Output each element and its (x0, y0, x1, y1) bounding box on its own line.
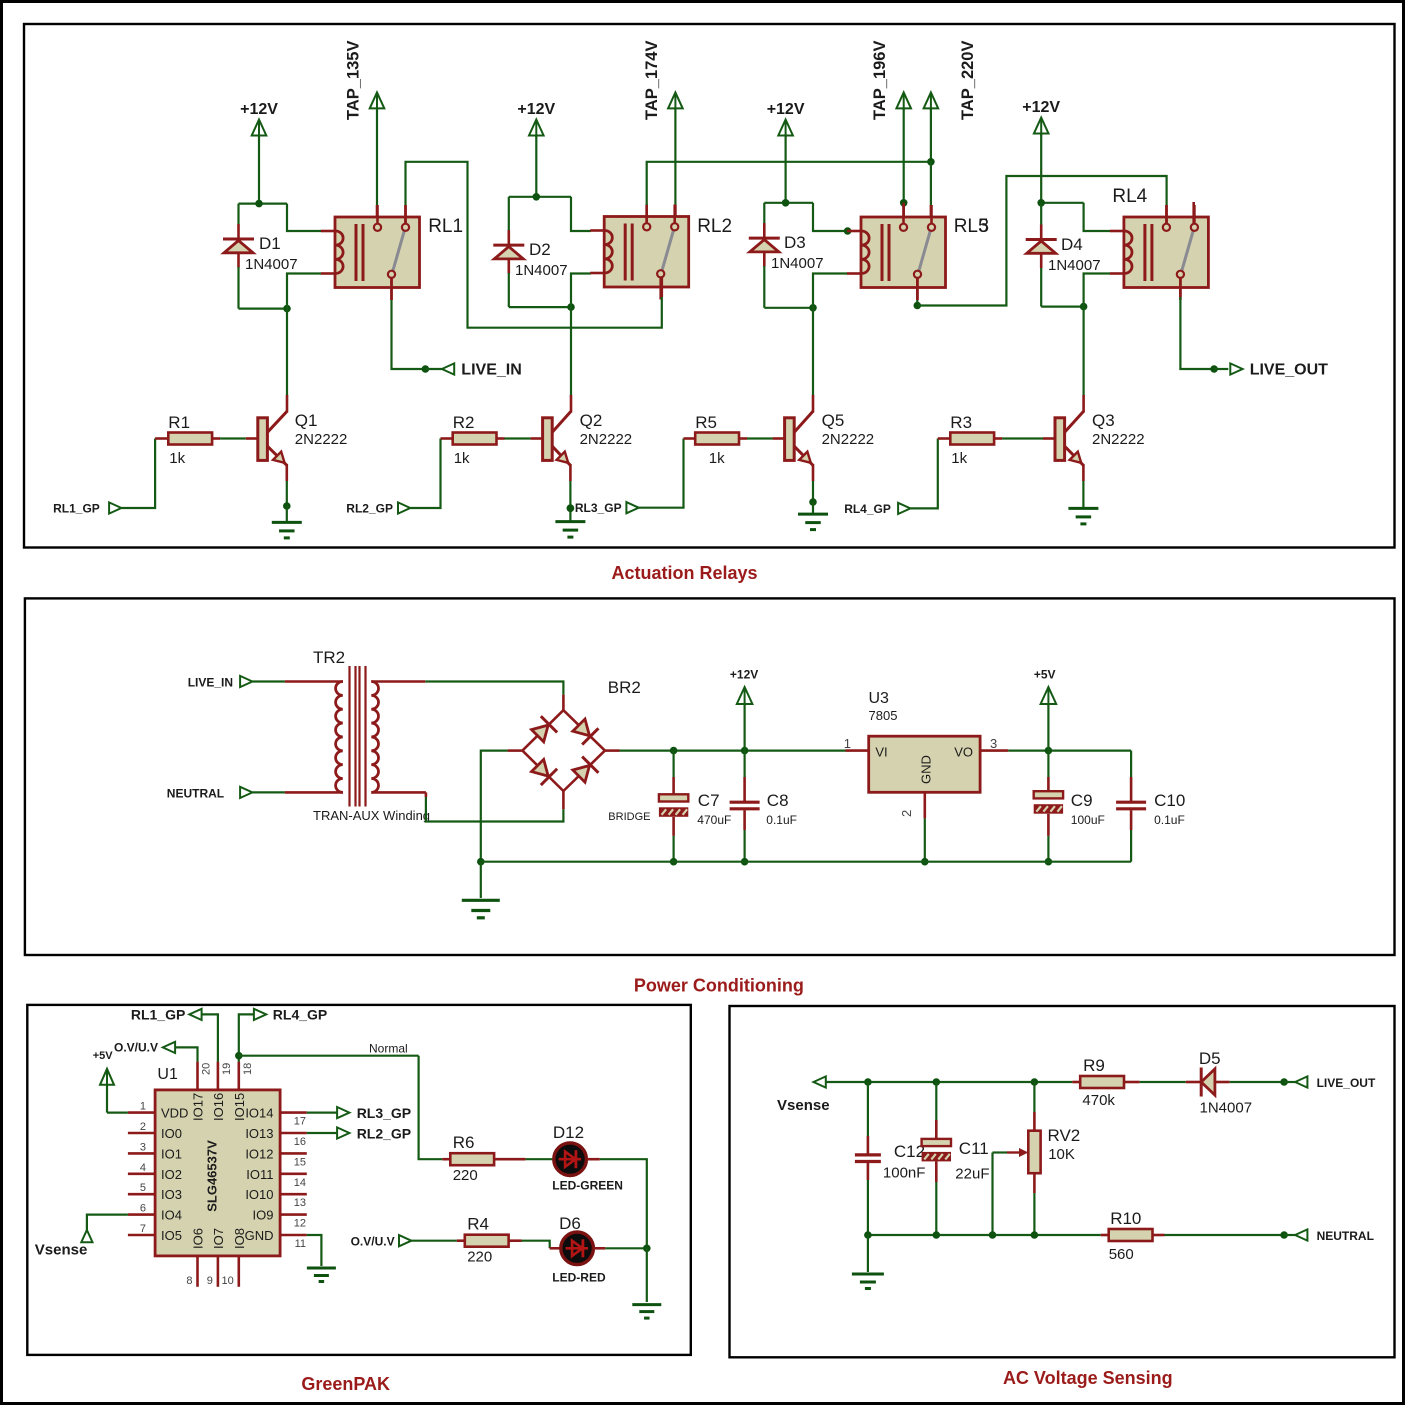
section box: AC Voltage Sensing (730, 1006, 1395, 1357)
svg-text:11: 11 (295, 1238, 306, 1250)
wire TR2 secondary top to BR2 (371, 680, 425, 683)
svg-text:IO6: IO6 (191, 1228, 206, 1249)
potentiometer RV2 10K (1028, 1131, 1040, 1174)
svg-text:IO7: IO7 (211, 1228, 226, 1249)
wire rail to D1 (237, 204, 239, 224)
svg-text:1N4007: 1N4007 (515, 262, 568, 279)
wire cathode rail to ground (646, 1248, 648, 1302)
svg-text:IO13: IO13 (245, 1126, 273, 1141)
diode D2 (507, 230, 510, 245)
wire RL4 pole to LIVE_OUT (1179, 278, 1182, 297)
svg-text:O.V/U.V: O.V/U.V (351, 1235, 395, 1249)
wire D3 bottom rail (764, 307, 813, 309)
junction Q5 emitter (809, 498, 817, 506)
wire BR2 plus to +12V rail (605, 749, 620, 752)
wire +12V rail cell 1 (239, 203, 288, 205)
svg-text:220: 220 (453, 1167, 478, 1184)
wire U1 IO4 to Vsense (87, 1215, 128, 1230)
junction RL3 coil top (844, 227, 852, 235)
wire RL4 NO stub (1192, 202, 1195, 224)
wire rail to RL3 coil top (813, 203, 848, 231)
svg-text:IO17: IO17 (191, 1093, 206, 1121)
svg-text:D4: D4 (1061, 235, 1083, 254)
wire TAP_196V stub (902, 203, 905, 224)
svg-text:IO8: IO8 (232, 1228, 247, 1249)
diode D3 (763, 223, 766, 238)
svg-text:1k: 1k (454, 450, 470, 467)
junction RV2 bottom (1031, 1231, 1039, 1239)
wire pin 17 to RL3_GP (307, 1111, 337, 1113)
wire TAP_220V to RL3 pin (930, 162, 932, 205)
svg-text:IO4: IO4 (161, 1208, 182, 1223)
ground (Q3) (1068, 507, 1098, 510)
svg-text:LIVE_OUT: LIVE_OUT (1250, 362, 1328, 379)
wire RL3_GP to R5 (639, 439, 684, 508)
svg-text:0.1uF: 0.1uF (766, 813, 797, 827)
svg-text:R6: R6 (453, 1133, 475, 1152)
svg-text:D1: D1 (259, 234, 281, 253)
svg-text:C8: C8 (767, 791, 789, 810)
junction D4 bottom (1080, 303, 1088, 311)
svg-text:RL2_GP: RL2_GP (346, 502, 393, 516)
wire +12V rail to U3 VI (846, 749, 869, 752)
svg-text:TAP_220V: TAP_220V (959, 41, 977, 121)
svg-text:2N2222: 2N2222 (580, 431, 633, 448)
junction TAP_196V (900, 199, 908, 207)
junction +12V cell 3 (782, 199, 790, 207)
terminal RL3_GP (U1) (337, 1107, 349, 1118)
junction ground rail (477, 858, 485, 866)
wire D1 bottom rail (239, 308, 288, 310)
wire C9 top (1047, 751, 1049, 777)
wire C7 top (672, 751, 674, 777)
ground (sense) (852, 1273, 884, 1276)
wire RL2 NC to TAP_220V node (647, 162, 931, 205)
diode D1 (237, 224, 240, 239)
wire LIVE_IN to TR2 primary (252, 680, 285, 682)
svg-text:3: 3 (979, 216, 990, 237)
wire emitter dot to ground (569, 508, 571, 521)
wire D4 bottom rail (1041, 306, 1083, 308)
junction LIVE_OUT (1210, 365, 1218, 373)
wire R9 to D5 (1124, 1081, 1140, 1084)
svg-text:20: 20 (201, 1063, 213, 1075)
pin 3 (IO1) (128, 1152, 155, 1155)
wire +5V to U1 VDD (106, 1084, 108, 1113)
junction C12 top (864, 1078, 872, 1086)
svg-text:1N4007: 1N4007 (771, 255, 824, 272)
svg-text:R10: R10 (1110, 1209, 1141, 1228)
svg-text:19: 19 (221, 1063, 233, 1075)
ground (Q2) (555, 520, 585, 523)
relay RL1 (335, 217, 420, 288)
junction +12V cell 1 (255, 200, 263, 208)
resistor R10 560 (1109, 1229, 1153, 1241)
svg-text:R5: R5 (695, 413, 717, 432)
wire C8 bottom (743, 810, 746, 830)
pin 5 (IO3) (128, 1193, 155, 1196)
junction C11 bottom (933, 1231, 941, 1239)
svg-text:IO5: IO5 (161, 1228, 182, 1243)
pin 4 (IO2) (128, 1173, 155, 1176)
section box: GreenPAK (27, 1005, 691, 1355)
power +5V (rail) (1041, 687, 1057, 704)
svg-text:+12V: +12V (1022, 99, 1060, 116)
svg-text:Q1: Q1 (295, 411, 318, 430)
wire to NEUTRAL flag (sense) (1284, 1234, 1295, 1236)
pin 11 (GND) (280, 1234, 307, 1237)
terminal LIVE_OUT (1230, 363, 1242, 374)
svg-text:1: 1 (140, 1101, 146, 1113)
svg-text:Q2: Q2 (580, 411, 603, 430)
svg-text:RL1_GP: RL1_GP (53, 502, 100, 516)
wire C9 bottom (1047, 814, 1050, 836)
wire +12V to D4 rail (1040, 133, 1042, 203)
resistor R1 (168, 433, 212, 445)
wire C12 bottom lead (867, 1163, 870, 1180)
svg-text:22uF: 22uF (955, 1166, 989, 1183)
svg-text:13: 13 (294, 1197, 306, 1209)
svg-text:IO10: IO10 (245, 1187, 273, 1202)
wire rail to D4 (1040, 203, 1042, 225)
svg-text:VI: VI (875, 745, 887, 760)
wire rail to R9 (1072, 1081, 1080, 1084)
terminal NEUTRAL (sense) (1295, 1229, 1307, 1240)
wire U3 GND pin (923, 792, 926, 818)
svg-text:IO12: IO12 (245, 1146, 273, 1161)
ground rail (section 2) (481, 861, 1131, 863)
wire C10 bottom (1130, 810, 1133, 830)
junction NEUTRAL (sense) (1280, 1231, 1288, 1239)
svg-text:15: 15 (294, 1156, 306, 1168)
svg-text:4: 4 (140, 1162, 146, 1174)
wire RL2 cell to Q2 collector (570, 307, 572, 396)
ground (LEDs) (632, 1303, 661, 1306)
svg-text:1: 1 (844, 736, 851, 751)
capacitor C9 100uF (1034, 791, 1063, 798)
svg-text:Power Conditioning: Power Conditioning (634, 976, 804, 996)
svg-text:0.1uF: 0.1uF (1154, 813, 1185, 827)
svg-text:3: 3 (990, 736, 997, 751)
pin 13 (IO10) (280, 1193, 307, 1196)
relay RL5 (RL3) (861, 217, 946, 288)
svg-text:TR2: TR2 (313, 648, 345, 667)
wire D12 to cathode rail (587, 1158, 600, 1161)
wire rail to RL1 coil top (287, 204, 322, 231)
pin 18 (IO15) (238, 1062, 241, 1090)
svg-text:RL4: RL4 (1112, 186, 1147, 207)
terminal Vsense (U1) (81, 1230, 92, 1242)
svg-text:+5V: +5V (1034, 668, 1056, 682)
wire U3 VO to +5V rail (980, 749, 1008, 752)
wire D4 anode down (1040, 268, 1042, 307)
pin 20 (IO17) (196, 1062, 199, 1090)
ground (U1) (307, 1267, 336, 1270)
wire RL1 cell to Q1 collector (286, 309, 288, 396)
junction Normal net (235, 1052, 243, 1060)
svg-text:D12: D12 (553, 1123, 584, 1142)
wire +12V to D1 rail (258, 135, 260, 204)
terminal TAP_220V (924, 92, 939, 108)
svg-text:2N2222: 2N2222 (295, 431, 348, 448)
wire C10 top (1130, 751, 1132, 777)
pin 6 (IO4) (128, 1213, 155, 1216)
terminal LIVE_IN (442, 363, 454, 374)
svg-text:C7: C7 (698, 791, 720, 810)
wire RL1 coil bottom (287, 274, 322, 309)
wire +12V rail cell 2 (509, 196, 571, 198)
wire rail to RL4 coil top (1084, 203, 1110, 231)
svg-text:2N2222: 2N2222 (822, 431, 875, 448)
terminal LIVE_OUT (sense) (1295, 1076, 1307, 1087)
junction C11 top (933, 1078, 941, 1086)
relay RL4 (1124, 217, 1209, 288)
resistor R5 (695, 433, 739, 445)
wire R1 to Q1 base (212, 437, 220, 440)
power +12V (cell 1) (252, 120, 267, 136)
svg-text:1k: 1k (709, 450, 725, 467)
section box: Actuation Relays (24, 24, 1395, 548)
svg-text:RL1_GP: RL1_GP (131, 1007, 185, 1023)
junction C7 bottom (670, 858, 678, 866)
svg-text:C9: C9 (1071, 791, 1093, 810)
capacitor C7 470uF (659, 794, 688, 801)
svg-text:17: 17 (294, 1116, 306, 1128)
svg-text:100nF: 100nF (883, 1165, 926, 1182)
power +12V (cell 3) (778, 120, 793, 136)
svg-text:LED-RED: LED-RED (552, 1271, 606, 1285)
svg-text:7805: 7805 (869, 708, 898, 723)
wire emitter dot to ground (812, 502, 814, 514)
capacitor C11 22uF (922, 1139, 951, 1146)
svg-text:C10: C10 (1154, 791, 1185, 810)
svg-text:LIVE_OUT: LIVE_OUT (1317, 1076, 1376, 1090)
svg-text:9: 9 (207, 1275, 213, 1287)
pin 14 (IO11) (280, 1173, 307, 1176)
wire TAP_135V to RL1 pin (376, 108, 378, 205)
wire to ground symbol (480, 862, 482, 898)
svg-text:1N4007: 1N4007 (245, 256, 298, 273)
relay RL2 (604, 217, 689, 288)
svg-text:RL3_GP: RL3_GP (575, 501, 622, 515)
wire RL1_GP to R1 (121, 439, 155, 509)
junction U3 GND (921, 858, 929, 866)
pin 10 (IO8) (238, 1256, 241, 1287)
svg-text:LIVE_IN: LIVE_IN (188, 676, 233, 690)
wire +5V arrow stem (1047, 703, 1049, 751)
wire RL1 pole to LIVE_IN (390, 278, 393, 300)
wire TAP_174V to RL2 pin (674, 108, 676, 205)
svg-text:8: 8 (186, 1275, 192, 1287)
diode D4 (1040, 225, 1043, 240)
svg-text:16: 16 (294, 1136, 306, 1148)
led D6 LED-RED (561, 1232, 594, 1265)
pin 1 (VDD) (128, 1111, 155, 1114)
svg-text:TAP_196V: TAP_196V (871, 41, 889, 121)
svg-text:RL3_GP: RL3_GP (357, 1105, 411, 1121)
svg-text:18: 18 (242, 1063, 254, 1075)
wire neutral rail (868, 1234, 1101, 1236)
svg-text:10K: 10K (1048, 1146, 1075, 1163)
svg-text:2N2222: 2N2222 (1092, 431, 1145, 448)
svg-text:BR2: BR2 (608, 678, 641, 697)
wire R4 to D6 (509, 1239, 522, 1242)
wire to ground (sense) (867, 1235, 869, 1272)
svg-text:+5V: +5V (93, 1050, 114, 1062)
svg-text:14: 14 (294, 1177, 306, 1189)
svg-text:D6: D6 (559, 1214, 581, 1233)
transistor Q5 2N2222 (785, 418, 795, 461)
svg-text:LIVE_IN: LIVE_IN (461, 362, 521, 379)
wire D1 anode down (237, 267, 239, 309)
pin 17 (IO14) (280, 1111, 307, 1114)
svg-text:R3: R3 (950, 413, 972, 432)
ground (Q1) (272, 521, 302, 524)
junction TAP_220V / RL2 NC chain (927, 158, 935, 166)
svg-text:Normal: Normal (369, 1042, 408, 1056)
svg-text:R4: R4 (467, 1215, 489, 1234)
wire RL4 coil bottom (1084, 274, 1110, 307)
ground (Q5) (798, 513, 828, 516)
svg-text:IO16: IO16 (211, 1093, 226, 1121)
power +12V (cell 4) (1034, 118, 1049, 134)
wire +12V arrow stem (743, 703, 745, 751)
junction LIVE_IN (422, 365, 430, 373)
capacitor C10 0.1uF (1116, 801, 1146, 804)
svg-text:BRIDGE: BRIDGE (608, 811, 650, 823)
svg-text:Vsense: Vsense (777, 1097, 830, 1114)
svg-text:100uF: 100uF (1071, 813, 1105, 827)
transistor Q3 2N2222 (1055, 418, 1065, 461)
wire +12V rail cell 3 (764, 202, 813, 204)
svg-text:Actuation Relays: Actuation Relays (611, 563, 757, 583)
svg-text:RL2_GP: RL2_GP (357, 1125, 411, 1141)
svg-text:SLG46537V: SLG46537V (205, 1140, 220, 1212)
svg-text:1k: 1k (951, 450, 967, 467)
wire to LIVE_OUT flag (1214, 368, 1228, 370)
svg-text:O.V/U.V: O.V/U.V (114, 1041, 158, 1055)
wire Normal net (239, 1055, 419, 1057)
svg-text:3: 3 (140, 1141, 146, 1153)
wire rail to RL2 coil top (571, 197, 591, 231)
svg-text:D2: D2 (529, 240, 551, 259)
svg-text:GreenPAK: GreenPAK (301, 1374, 390, 1394)
junction C12 bottom (864, 1231, 872, 1239)
transistor Q2 2N2222 (543, 418, 553, 461)
svg-text:R9: R9 (1083, 1056, 1105, 1075)
wire C8 top (743, 751, 745, 777)
junction D1 bottom (283, 305, 291, 313)
svg-text:TAP_135V: TAP_135V (345, 41, 363, 121)
svg-text:IO15: IO15 (232, 1093, 247, 1121)
wire R2 to Q2 base (497, 437, 505, 440)
junction D2 bottom (567, 303, 575, 311)
junction RL3_GP at Q2 emitter (567, 504, 575, 512)
transistor Q1 2N2222 (258, 418, 268, 461)
resistor R4 220 (465, 1235, 509, 1247)
svg-text:12: 12 (294, 1218, 306, 1230)
wire RV2 bottom lead (1033, 1173, 1036, 1193)
wire D6 to cathode rail (594, 1247, 605, 1250)
svg-text:GND: GND (245, 1228, 274, 1243)
wire RL4_GP to R3 (910, 439, 937, 509)
terminal RL4_GP (U1) (254, 1009, 266, 1020)
wire R10 to NEUTRAL (1153, 1234, 1165, 1237)
wire rail to R10 (1101, 1234, 1109, 1237)
junction D3 bottom (809, 304, 817, 312)
pin 2 (IO0) (128, 1132, 155, 1135)
svg-text:+12V: +12V (730, 668, 758, 682)
terminal RL2_GP (U1) (337, 1127, 349, 1138)
wire TAP_196V to RL3 pin (903, 108, 905, 203)
svg-text:D5: D5 (1199, 1049, 1221, 1068)
wire +12V to D2 rail (535, 135, 537, 197)
svg-text:RL2: RL2 (697, 216, 732, 237)
wire RL3 coil bottom (813, 274, 848, 308)
svg-text:+12V: +12V (517, 101, 555, 118)
svg-text:7: 7 (140, 1223, 146, 1235)
svg-text:Q3: Q3 (1092, 411, 1115, 430)
resistor R2 (453, 433, 497, 445)
wire D2 anode down (508, 273, 510, 307)
wire C12 top lead (867, 1082, 869, 1136)
bridge rectifier BR2 (522, 710, 563, 750)
wire Q2 emitter to ground (569, 481, 571, 508)
wire RL1 NO to RL2 pole (406, 162, 662, 328)
svg-text:U1: U1 (157, 1066, 178, 1083)
wire R6 to D12 (494, 1158, 525, 1161)
svg-text:IO11: IO11 (246, 1167, 273, 1182)
regulator U3 7805 (869, 736, 980, 792)
wire +12V rail cell 4 (1041, 202, 1083, 204)
pin 19 (IO16) (217, 1062, 220, 1090)
junction +12V rail (741, 747, 749, 755)
svg-text:IO1: IO1 (161, 1146, 182, 1161)
wire R5 to Q5 base (739, 437, 747, 440)
wire pin 16 to RL2_GP (307, 1132, 337, 1134)
resistor R6 220 (450, 1153, 494, 1165)
wire TAP_220V down (930, 108, 932, 162)
wire O.V/U.V to pin 20 (175, 1047, 197, 1061)
wire RL3 pole chain (917, 176, 1166, 306)
svg-text:C11: C11 (959, 1139, 989, 1158)
svg-text:IO0: IO0 (161, 1126, 182, 1141)
wire D3 anode down (763, 266, 765, 308)
wire C7 bottom (672, 817, 675, 836)
wire O.V/U.V to R4 (411, 1240, 457, 1242)
wire RL3 cell to Q5 collector (812, 308, 814, 396)
led D12 LED-GREEN (554, 1143, 587, 1176)
svg-text:1k: 1k (169, 450, 185, 467)
wire to LIVE_OUT flag (sense) (1284, 1081, 1295, 1083)
junction C9 bottom (1045, 858, 1053, 866)
wire emitter dot to ground (286, 506, 288, 522)
wire Q3 emitter to ground (1082, 481, 1084, 508)
wire RL2 coil bottom (571, 274, 591, 308)
svg-text:470k: 470k (1082, 1092, 1115, 1109)
section box: Power Conditioning (25, 598, 1395, 955)
junction RV2 wiper (989, 1231, 997, 1239)
terminal TAP_174V (668, 92, 683, 108)
transformer TR2 (336, 682, 343, 793)
svg-text:5: 5 (140, 1182, 146, 1194)
svg-text:RV2: RV2 (1048, 1126, 1081, 1145)
svg-text:GND: GND (919, 755, 934, 784)
wire U1 GND to ground (307, 1235, 322, 1266)
svg-text:560: 560 (1109, 1246, 1134, 1263)
svg-text:RL1: RL1 (428, 216, 463, 237)
svg-text:D3: D3 (784, 233, 806, 252)
